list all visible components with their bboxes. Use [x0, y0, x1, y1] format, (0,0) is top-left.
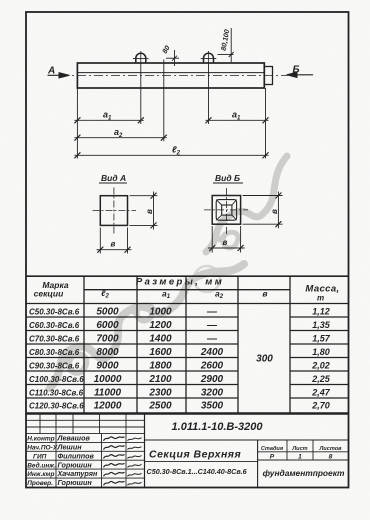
svg-text:в: в: [111, 240, 116, 249]
svg-text:С120.30-8Св.6: С120.30-8Св.6: [29, 402, 84, 411]
svg-text:1,57: 1,57: [312, 334, 331, 344]
svg-text:2300: 2300: [148, 388, 172, 399]
svg-text:1200: 1200: [149, 320, 172, 331]
svg-text:—: —: [206, 334, 218, 345]
svg-text:С50.30-8Св.1...С140.40-8Св.6: С50.30-8Св.1...С140.40-8Св.6: [147, 467, 248, 476]
svg-text:1: 1: [298, 454, 302, 461]
svg-text:3200: 3200: [201, 388, 224, 399]
svg-text:11000: 11000: [94, 388, 122, 399]
svg-text:—: —: [206, 307, 218, 318]
svg-text:3500: 3500: [201, 401, 224, 412]
svg-text:Секция Верхняя: Секция Верхняя: [149, 449, 241, 461]
svg-text:Горюшин: Горюшин: [58, 460, 93, 469]
svg-text:Филиппов: Филиппов: [58, 451, 95, 460]
svg-text:2400: 2400: [200, 347, 224, 358]
svg-text:Размеры, мм: Размеры, мм: [136, 277, 224, 288]
svg-text:Вид Б: Вид Б: [215, 173, 240, 183]
svg-text:300: 300: [256, 354, 273, 365]
svg-text:в: в: [223, 238, 228, 247]
svg-text:1,80: 1,80: [312, 347, 330, 357]
svg-text:фундаментпроект: фундаментпроект: [263, 468, 345, 478]
svg-text:6000: 6000: [96, 320, 119, 331]
svg-text:Лист: Лист: [291, 446, 307, 452]
svg-text:ГИП: ГИП: [33, 453, 47, 460]
svg-text:2,70: 2,70: [311, 401, 330, 411]
svg-text:7000: 7000: [96, 334, 119, 345]
svg-text:Вед.инж.: Вед.инж.: [27, 461, 56, 469]
svg-text:9000: 9000: [96, 361, 119, 372]
svg-text:2100: 2100: [148, 374, 172, 385]
svg-text:в: в: [145, 209, 154, 214]
svg-text:Провер.: Провер.: [27, 480, 53, 487]
svg-text:Хачатурян: Хачатурян: [57, 469, 99, 478]
svg-text:1,35: 1,35: [312, 320, 331, 330]
svg-text:С60.30-8Св.6: С60.30-8Св.6: [29, 321, 80, 330]
svg-text:А: А: [47, 66, 55, 77]
svg-text:10000: 10000: [94, 374, 122, 385]
svg-text:2900: 2900: [200, 374, 224, 385]
svg-text:5000: 5000: [96, 307, 119, 318]
svg-text:1800: 1800: [149, 361, 172, 372]
svg-text:Левашов: Левашов: [57, 434, 91, 443]
svg-text:Р: Р: [270, 454, 275, 461]
svg-text:2500: 2500: [148, 401, 172, 412]
svg-text:т: т: [317, 294, 324, 303]
svg-text:Лешин: Лешин: [57, 443, 83, 452]
svg-text:Листов: Листов: [318, 446, 342, 452]
svg-text:1000: 1000: [149, 307, 172, 318]
svg-text:С70.30-8Св.6: С70.30-8Св.6: [29, 335, 80, 344]
svg-text:Стадия: Стадия: [261, 446, 284, 452]
svg-text:2600: 2600: [200, 361, 224, 372]
svg-text:С90.30-8Св.6: С90.30-8Св.6: [29, 362, 80, 371]
svg-text:12000: 12000: [94, 401, 122, 412]
svg-text:Инж.кмр: Инж.кмр: [27, 471, 54, 478]
svg-text:2,47: 2,47: [311, 388, 331, 398]
svg-text:в: в: [262, 289, 267, 299]
svg-text:С80.30-8Св.6: С80.30-8Св.6: [29, 348, 80, 357]
svg-text:1400: 1400: [149, 334, 172, 345]
svg-text:Вид А: Вид А: [101, 173, 126, 183]
svg-text:2,02: 2,02: [311, 361, 330, 371]
svg-text:Нач.ПО-У: Нач.ПО-У: [27, 445, 58, 452]
svg-text:С110.30-8Св.6: С110.30-8Св.6: [29, 389, 84, 398]
svg-text:С50.30-8Св.6: С50.30-8Св.6: [29, 308, 80, 317]
svg-text:Б: Б: [293, 65, 300, 76]
svg-text:1600: 1600: [149, 347, 172, 358]
svg-text:8000: 8000: [96, 347, 119, 358]
svg-text:8: 8: [329, 454, 333, 461]
svg-text:2,25: 2,25: [311, 374, 331, 384]
svg-text:1,12: 1,12: [312, 307, 330, 317]
svg-text:в: в: [270, 209, 279, 214]
svg-text:С100.30-8Св.6: С100.30-8Св.6: [29, 375, 84, 384]
svg-text:секции: секции: [34, 289, 64, 299]
svg-text:Н.контр: Н.контр: [27, 436, 54, 443]
svg-text:—: —: [206, 320, 218, 331]
svg-text:1.011.1-10.В-3200: 1.011.1-10.В-3200: [172, 421, 264, 433]
svg-text:Горюшин: Горюшин: [58, 478, 93, 487]
